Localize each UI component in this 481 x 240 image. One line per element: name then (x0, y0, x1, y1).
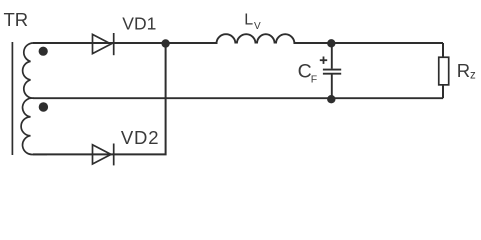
svg-text:F: F (311, 74, 317, 86)
transformer core line (11, 42, 13, 155)
svg-text:L: L (244, 12, 253, 29)
resistor Rz (439, 57, 449, 85)
wire: top rail right segment (inductor to right corner) (294, 42, 444, 44)
svg-text:C: C (298, 60, 312, 82)
svg-text:z: z (470, 70, 476, 82)
node junction dot capacitor top (327, 39, 335, 47)
node junction dot diodes output (161, 39, 169, 47)
svg-text:VD1: VD1 (122, 13, 156, 33)
wire: right side drop to resistor (442, 43, 444, 58)
svg-text:TR: TR (4, 9, 29, 30)
wire: bottom rail from winding through VD2 then up to top node (33, 43, 166, 154)
svg-text:R: R (457, 60, 470, 81)
polarity dot upper winding (39, 47, 48, 56)
polarity dot lower winding (39, 102, 48, 111)
transformer TR lower secondary winding (21, 98, 47, 154)
capacitor CF (323, 43, 341, 99)
transformer TR upper secondary winding (23, 43, 47, 98)
diode VD1 (93, 33, 114, 55)
wire: middle rail (center tap return) (33, 97, 443, 99)
svg-text:VD2: VD2 (121, 127, 159, 148)
svg-text:V: V (254, 21, 261, 32)
plus sign for CF (320, 57, 327, 64)
wire: top rail left segment (winding to inductor) (33, 42, 218, 44)
wire: resistor bottom lead (442, 85, 444, 98)
diode VD2 (93, 144, 114, 166)
node junction dot capacitor bottom (327, 95, 335, 103)
inductor LV (217, 34, 295, 43)
